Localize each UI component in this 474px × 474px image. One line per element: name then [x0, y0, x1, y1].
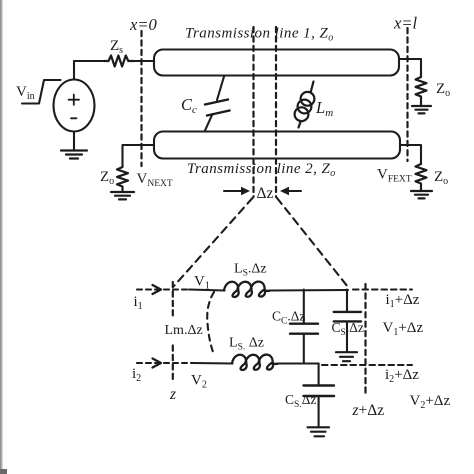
label i1+dz — [386, 292, 420, 310]
dashed current arrow i1 — [137, 285, 189, 294]
ground (Cs line1) — [336, 352, 357, 361]
label i2 — [132, 366, 141, 384]
svg-text:LS.Δz: LS.Δz — [234, 262, 267, 279]
label Vin — [16, 84, 35, 102]
dashed line x=l — [406, 28, 408, 161]
label x=l — [393, 14, 417, 33]
svg-text:Transmission line 2, Zo: Transmission line 2, Zo — [187, 161, 336, 179]
label Transmission line 2, Zo — [187, 161, 336, 179]
svg-text:LS. Δz: LS. Δz — [229, 336, 264, 353]
svg-text:Δz: Δz — [257, 185, 274, 202]
label V2+dz — [410, 393, 451, 411]
label Lm — [315, 98, 333, 119]
ground (source) — [61, 132, 87, 159]
svg-text:i1: i1 — [134, 294, 143, 312]
wire resistor to TL1 — [133, 60, 154, 62]
ground (NEXT) — [111, 192, 134, 199]
wire TL2 left to Zo NEXT — [123, 145, 155, 165]
label Transmission line 1, Zo — [185, 26, 334, 44]
minus sign — [71, 117, 77, 119]
svg-text:V1+Δz: V1+Δz — [383, 320, 424, 338]
label Cc dz — [272, 309, 305, 327]
label Cc — [181, 95, 197, 116]
ground (FEXT) — [411, 191, 432, 198]
dashed boundary z — [172, 282, 174, 316]
label Zo NEXT — [100, 169, 114, 187]
svg-text:V2: V2 — [191, 373, 207, 391]
label Ls dz (line2) — [229, 336, 264, 353]
dashed line x=0 — [140, 31, 142, 166]
resistor Zo (FEXT) — [416, 163, 427, 190]
dashed wire i2+dz — [322, 364, 412, 366]
label z — [169, 386, 176, 403]
label Cs dz (line1) — [332, 320, 364, 338]
label i1 — [134, 294, 143, 312]
svg-text:Zs: Zs — [110, 38, 123, 56]
capacitor Cs dz (line2 to gnd) — [304, 364, 335, 428]
svg-text:Cc: Cc — [181, 95, 197, 116]
label V2 — [191, 373, 207, 391]
label Lm dz — [165, 323, 203, 338]
label VNEXT — [137, 171, 173, 189]
resistor Zs — [104, 56, 133, 67]
label V1+dz — [383, 320, 424, 338]
inductor Ls dz (line 1) — [224, 282, 269, 297]
resistor Zo (NEXT) — [117, 165, 128, 191]
svg-text:Lm.Δz: Lm.Δz — [165, 323, 203, 338]
ground (line1 right) — [412, 106, 431, 113]
label z+dz — [352, 402, 385, 419]
label Zo FEXT — [434, 169, 448, 187]
mutual coupling arc Lm dz — [207, 292, 214, 355]
dashed boundary z+dz — [364, 284, 366, 396]
inductor Lm (mutual, slanted coil) — [295, 82, 315, 128]
plus sign — [69, 95, 79, 105]
capacitor Cc dz (between lines) — [290, 290, 318, 364]
dashed wire i1+dz — [353, 288, 412, 290]
dashed projection line left — [174, 198, 253, 286]
wire node V1 to L coil — [189, 290, 225, 291]
svg-text:VNEXT: VNEXT — [137, 171, 173, 189]
wire coil2 to Cs2 junction — [277, 362, 318, 364]
source V1 (Vin) — [54, 80, 95, 132]
svg-text:Zo: Zo — [434, 169, 448, 187]
wire TL2 right to Zo FEXT — [400, 145, 421, 163]
wire coil to node corner — [269, 289, 348, 292]
svg-text:x=0: x=0 — [129, 15, 157, 34]
ground (Cs line2) — [308, 427, 330, 436]
svg-text:z+Δz: z+Δz — [352, 402, 385, 419]
label dz — [257, 185, 274, 202]
svg-text:x=l: x=l — [393, 14, 417, 33]
dashed current arrow i2 — [137, 359, 192, 368]
svg-text:i2: i2 — [132, 366, 141, 384]
arrow dz right — [280, 187, 301, 195]
dashed dz boundary left (top section) — [252, 27, 254, 197]
transmission line TL2 — [154, 132, 400, 159]
scan edge band — [0, 0, 7, 474]
capacitor Cc (coupling, slanted) — [205, 77, 230, 131]
svg-text:i1+Δz: i1+Δz — [386, 292, 420, 310]
resistor Zo (far end line1) — [416, 75, 427, 106]
arrow dz left — [224, 187, 250, 195]
svg-text:Zo: Zo — [436, 81, 450, 99]
label Cs dz (line2) — [285, 392, 316, 410]
label Zo line1 — [436, 81, 450, 99]
svg-text:V2+Δz: V2+Δz — [410, 393, 451, 411]
svg-text:Transmission line 1, Zo: Transmission line 1, Zo — [185, 26, 334, 44]
label Zs — [110, 38, 123, 56]
label VFEXT — [377, 167, 412, 185]
label x=0 — [129, 15, 157, 34]
step waveform symbol — [22, 80, 61, 104]
svg-text:Vin: Vin — [16, 84, 35, 102]
svg-text:Zo: Zo — [100, 169, 114, 187]
transmission line TL1 — [154, 50, 399, 76]
label Ls dz (line1) — [234, 262, 267, 279]
svg-text:i2+Δz: i2+Δz — [385, 367, 419, 385]
label i2+dz — [385, 367, 419, 385]
label V1 — [194, 274, 210, 292]
svg-text:z: z — [169, 386, 176, 403]
svg-text:VFEXT: VFEXT — [377, 167, 412, 185]
inductor Ls dz (line 2) — [232, 355, 277, 370]
svg-text:Lm: Lm — [315, 98, 333, 119]
dashed dz boundary right (top section) — [275, 27, 277, 197]
wire TL1 right to Zo — [399, 59, 421, 75]
wire source top to resistor — [74, 61, 104, 80]
wire node V2 to L coil — [192, 362, 233, 365]
dashed projection line right — [277, 198, 348, 287]
svg-text:CS.Δz: CS.Δz — [285, 392, 316, 410]
capacitor Cs dz (line1 to gnd) — [334, 290, 361, 352]
